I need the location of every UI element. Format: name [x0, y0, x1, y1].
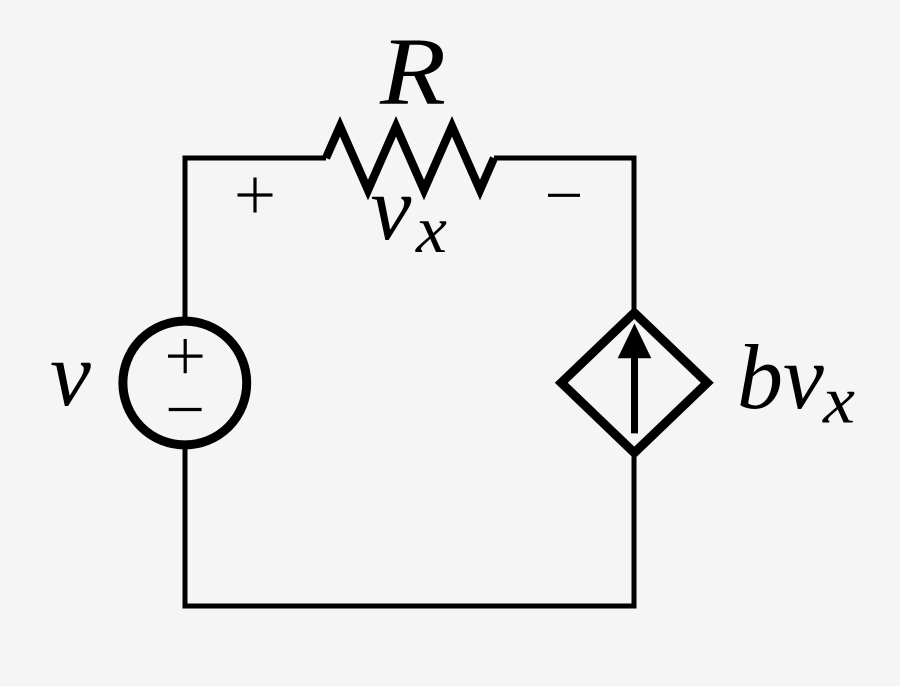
voltage source v: circle body	[123, 321, 247, 445]
voltage source v: minus mark inside	[169, 408, 202, 411]
wire: left vertical (through voltage source terminals)	[183, 156, 188, 609]
svg-text:R: R	[379, 18, 446, 125]
svg-text:v: v	[371, 157, 412, 259]
polarity - mark for v_x (right of resistor)	[548, 194, 580, 197]
voltage source v: plus mark inside	[168, 339, 203, 373]
polarity + mark for v_x (left of resistor)	[238, 178, 273, 213]
dependent current source bv_x: arrow head	[618, 323, 652, 358]
svg-text:bv: bv	[737, 326, 824, 428]
svg-text:x: x	[415, 193, 447, 267]
wire: top side, left segment (node between source + and resistor)	[183, 156, 327, 161]
svg-text:v: v	[50, 323, 91, 425]
dependent current source bv_x: arrow shaft	[631, 352, 638, 433]
svg-text:x: x	[822, 364, 855, 438]
wire: bottom side	[183, 604, 637, 609]
dependent current source bv_x: diamond body	[561, 313, 707, 453]
wire: right vertical (through current source terminals)	[632, 156, 637, 609]
wire: top side, right segment (node between resistor and current source)	[494, 156, 637, 161]
resistor R (zigzag body)	[326, 126, 494, 190]
